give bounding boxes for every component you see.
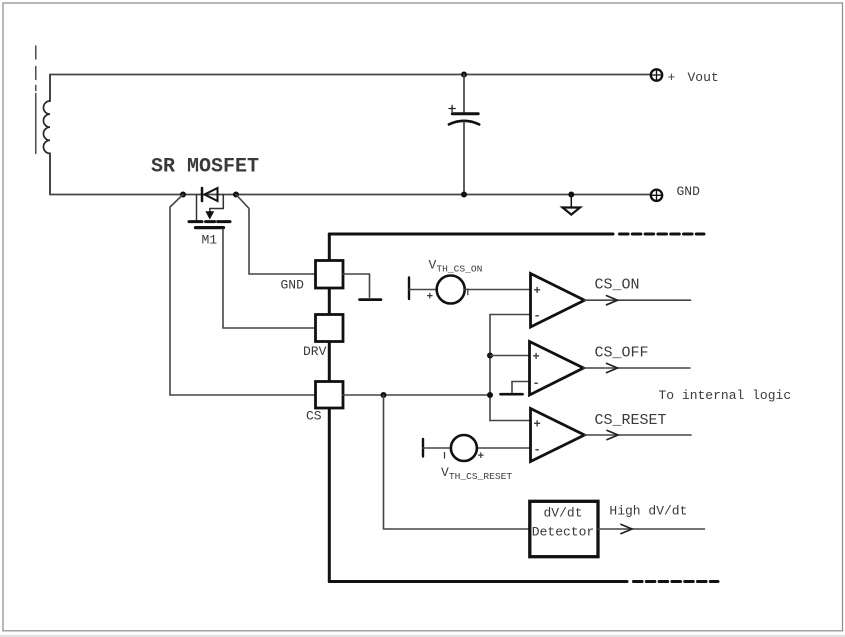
node junction bus comp2 [487, 353, 493, 359]
wire comparator bus [489, 315, 491, 421]
wire GND rail [50, 194, 651, 196]
transistor M1 [189, 195, 230, 228]
svg-text:+: + [668, 70, 676, 85]
wire CS row right [343, 394, 490, 396]
wire CS_OFF output [584, 367, 691, 369]
svg-text:CS_OFF: CS_OFF [595, 345, 649, 362]
arrow CS_RESET [607, 430, 618, 439]
op-amp U3 CS_RESET comparator [477, 409, 585, 462]
svg-text:dV/dt: dV/dt [544, 506, 583, 521]
pin box GND [316, 261, 344, 289]
svg-text:Vout: Vout [688, 70, 719, 85]
svg-text:GND: GND [281, 278, 305, 293]
capacitor C1 [449, 75, 479, 195]
wire dVdt output [598, 528, 705, 530]
dV/dt Detector box [530, 501, 598, 556]
arrow High dVdt [621, 524, 632, 533]
ground symbol [563, 197, 581, 215]
svg-text:VTH_CS_RESET: VTH_CS_RESET [441, 465, 512, 482]
svg-text:Detector: Detector [532, 525, 594, 540]
wire dashed continuation top [620, 233, 705, 236]
pin box DRV [316, 315, 344, 342]
wire drain to GND pin [236, 195, 316, 275]
transformer core dashed line [35, 46, 37, 154]
svg-text:GND: GND [677, 184, 701, 199]
wire CS to dVdt detector [384, 395, 530, 529]
wire CS_RESET output [585, 434, 692, 436]
node junction drain [233, 192, 239, 198]
terminal GND [651, 190, 662, 201]
wire top rail Vout [50, 74, 651, 76]
svg-text:CS: CS [306, 409, 322, 424]
wire thick bottom rail [329, 580, 627, 583]
svg-text:VTH_CS_ON: VTH_CS_ON [429, 258, 483, 275]
svg-text:-: - [534, 309, 541, 323]
pin box CS [316, 382, 344, 409]
svg-text:+: + [533, 350, 540, 364]
wire dashed continuation bottom [634, 580, 719, 583]
svg-text:DRV: DRV [303, 344, 327, 359]
svg-text:+: + [534, 418, 541, 432]
wire IC bus vertical [328, 234, 331, 582]
svg-text:-: - [533, 377, 540, 391]
terminal + Vout [651, 69, 662, 80]
wire CS_ON output [585, 299, 691, 301]
svg-text:CS_ON: CS_ON [595, 277, 640, 294]
svg-text:To internal logic: To internal logic [659, 388, 792, 403]
wire source to CS row [170, 195, 316, 396]
svg-text:+: + [478, 451, 485, 463]
node junction cap bottom [461, 192, 467, 198]
svg-text:High dV/dt: High dV/dt [609, 504, 687, 519]
wire gate to DRV pin [223, 229, 316, 328]
diode body D1 [202, 188, 218, 201]
svg-text:SR MOSFET: SR MOSFET [151, 156, 259, 179]
svg-text:+: + [427, 292, 434, 304]
ground tick GND pin [360, 298, 382, 301]
transformer winding L1 [43, 75, 50, 195]
node junction bus CS [487, 392, 493, 398]
wire thick top rail to IC [329, 233, 613, 236]
op-amp U1 CS_ON comparator [465, 274, 585, 328]
source V_TH_CS_RESET [423, 435, 485, 463]
op-amp U2 CS_OFF comparator [490, 342, 584, 396]
node junction source [180, 192, 186, 198]
svg-text:-: - [534, 443, 541, 457]
svg-text:CS_RESET: CS_RESET [595, 412, 667, 429]
wire GND pin to signal ground [343, 274, 370, 297]
arrow CS_OFF [607, 363, 618, 372]
node junction CS branch [381, 392, 387, 398]
arrow CS_ON [607, 296, 618, 305]
svg-text:M1: M1 [202, 233, 218, 248]
svg-text:+: + [534, 284, 541, 298]
node junction ground [568, 192, 574, 198]
node junction top cap [461, 72, 467, 78]
source V_TH_CS_ON [409, 276, 468, 304]
